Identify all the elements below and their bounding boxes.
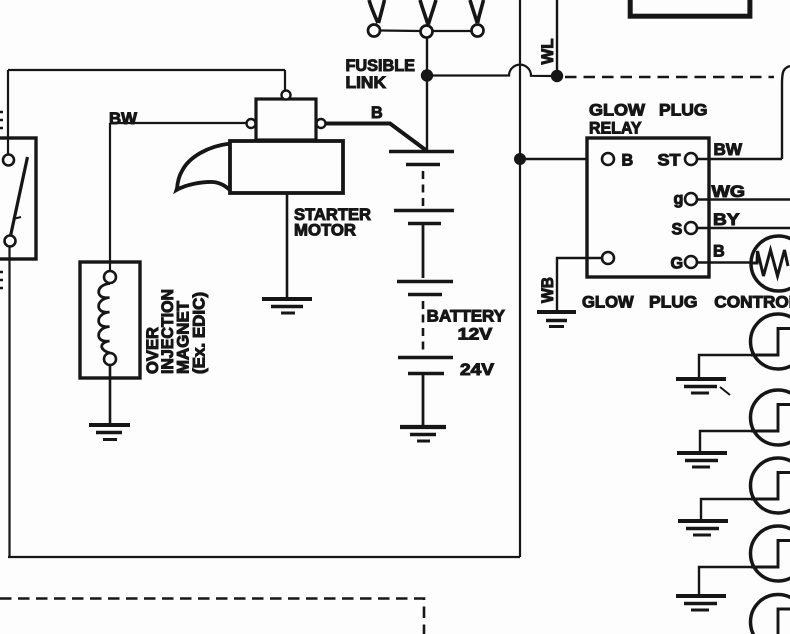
top right box (partial) xyxy=(630,0,750,16)
svg-text:CONTROL: CONTROL xyxy=(714,294,790,312)
ground G6 (GP2) xyxy=(677,451,727,455)
wire relay ST to BW right edge xyxy=(697,158,782,160)
wire main loop right: x=520 from y=0 to y=557 xyxy=(519,0,521,557)
svg-text:LINK: LINK xyxy=(346,74,387,92)
relay terminal S xyxy=(685,222,697,234)
glow plug GP1 step symbol xyxy=(751,329,790,356)
wire BW vertical right edge with curve to edge xyxy=(782,66,790,159)
over injection magnet terminal bottom xyxy=(104,353,116,365)
svg-text:S: S xyxy=(672,221,683,239)
wire starter motor to ground xyxy=(286,193,289,297)
svg-text:RELAY: RELAY xyxy=(589,120,642,138)
svg-text:(Ex. EDIC): (Ex. EDIC) xyxy=(191,292,209,374)
glow plug GP4 step symbol xyxy=(751,541,790,568)
ground G7 (GP3) xyxy=(678,519,728,523)
wire BW horizontal to solenoid xyxy=(110,122,247,124)
wire thick B from solenoid to battery xyxy=(326,124,427,152)
wire relay WB terminal to ground xyxy=(557,258,602,311)
wire GP1 to ground xyxy=(699,355,752,377)
glow plug controller resistor circle xyxy=(751,236,790,291)
wire GP3 to ground xyxy=(701,499,752,519)
fusible link F3 loop wires xyxy=(470,0,484,23)
wire GP2 to ground xyxy=(700,431,752,451)
glow plug GP5 circle (partial at bottom) xyxy=(751,595,790,634)
svg-text:FUSIBLE: FUSIBLE xyxy=(346,57,416,75)
wire fusible link down to battery xyxy=(426,38,428,152)
junction dot WL xyxy=(551,70,563,82)
battery plate 2 short xyxy=(408,222,441,226)
switch S1 blade tick xyxy=(13,217,21,219)
wire battery to ground xyxy=(422,375,425,425)
wire relay G to controller resistor xyxy=(697,261,752,263)
glow plug GP1 circle xyxy=(751,314,790,369)
wire solenoid top feed from main loop xyxy=(284,70,286,91)
battery dashed link 2 xyxy=(422,301,425,353)
switch S1 box (left edge, partially cut) xyxy=(0,138,36,259)
svg-text:MOTOR: MOTOR xyxy=(294,222,356,240)
starter solenoid terminal left xyxy=(247,119,256,128)
fusible link F1 circle left xyxy=(368,25,380,37)
relay terminal B xyxy=(602,153,614,165)
switch S1 contact top xyxy=(3,155,14,166)
fusible link F2 circle middle xyxy=(421,26,433,38)
dashed box bottom left xyxy=(0,599,424,634)
junction dot relay B feed xyxy=(514,153,526,165)
starter motor body xyxy=(230,141,343,193)
starter solenoid box xyxy=(256,99,316,140)
ground G3 (battery) xyxy=(400,425,446,429)
relay terminal ST xyxy=(685,153,697,165)
battery plate 4 short xyxy=(408,372,444,376)
svg-text:WG: WG xyxy=(712,183,746,201)
battery plate 1 short xyxy=(406,163,440,167)
svg-text:BW: BW xyxy=(109,110,138,128)
resistor zigzag inside controller xyxy=(751,250,788,276)
svg-text:ST: ST xyxy=(658,152,681,170)
ground G5 (GP1) xyxy=(676,377,726,381)
starter solenoid terminal top xyxy=(282,91,291,100)
battery plate 2 long xyxy=(394,209,454,213)
svg-text:WL: WL xyxy=(539,38,557,64)
svg-text:24V: 24V xyxy=(460,361,494,379)
relay terminal WB (unlabeled) xyxy=(602,252,614,264)
svg-text:WB: WB xyxy=(539,277,557,303)
starter motor nose cone xyxy=(177,144,231,191)
wire main loop top: y=70 from x=8 to x=285 xyxy=(8,69,285,71)
stray tick mark xyxy=(720,387,730,395)
svg-text:12V: 12V xyxy=(458,326,493,344)
relay terminal G xyxy=(685,256,697,268)
svg-text:BATTERY: BATTERY xyxy=(427,308,506,326)
wire main loop bottom: y=557 from x=8 to x=520 xyxy=(8,556,520,558)
over injection magnet box xyxy=(80,262,140,378)
svg-text:GLOW: GLOW xyxy=(589,101,646,119)
wire relay g to right edge WG xyxy=(697,198,790,200)
glow plug GP5 step symbol xyxy=(751,609,790,634)
wire battery cells 2-3 xyxy=(422,225,425,278)
over injection magnet terminal top xyxy=(104,271,116,283)
dashed wire top right xyxy=(565,76,774,79)
ground G8 (GP4) xyxy=(676,594,726,598)
ground G1 (over injection magnet) xyxy=(89,423,130,427)
glow plug GP2 circle xyxy=(751,390,790,445)
svg-text:PLUG: PLUG xyxy=(659,101,708,119)
glow plug GP2 step symbol xyxy=(751,405,790,432)
wire GP4 to ground xyxy=(699,567,752,594)
svg-text:B: B xyxy=(713,243,725,261)
ground G4 (relay WB) xyxy=(537,310,576,314)
wire between F2 and F3 xyxy=(433,30,472,32)
relay terminal g xyxy=(685,193,697,205)
wire main loop left: x=8 from y=70 to y=557 xyxy=(8,70,10,557)
battery dashed link 1 xyxy=(422,171,425,206)
ground G2 (starter motor) xyxy=(262,297,312,301)
wire fusible link junction to WL (hops over loop right wire) xyxy=(427,65,553,76)
battery BAT plate 1 long xyxy=(389,150,454,154)
svg-text:PLUG: PLUG xyxy=(649,294,698,312)
fusible link F1 loop wires xyxy=(369,0,385,23)
battery plate 3 long xyxy=(397,280,453,284)
wire relay S to right edge BY xyxy=(697,227,790,229)
svg-text:g: g xyxy=(674,190,684,208)
battery plate 4 long xyxy=(398,356,453,360)
wire BW vertical down to magnet coil xyxy=(109,123,111,272)
wire to relay terminal B xyxy=(520,158,602,160)
wire magnet to ground xyxy=(109,365,112,423)
battery plate 3 short xyxy=(408,293,442,297)
fusible link F2 loop wires xyxy=(420,0,436,25)
over injection magnet coil winding xyxy=(99,284,110,354)
glow plug GP3 circle xyxy=(751,458,790,513)
junction dot at fusible link xyxy=(421,69,433,81)
cut-off text marks left edge top xyxy=(0,112,3,128)
svg-text:BY: BY xyxy=(713,211,740,229)
switch S1 blade xyxy=(11,157,28,236)
svg-text:B: B xyxy=(622,152,634,170)
cut-off text marks left edge bottom xyxy=(0,272,3,288)
glow plug GP4 circle xyxy=(751,526,790,581)
svg-text:GLOW: GLOW xyxy=(582,294,634,312)
glow plug GP3 step symbol xyxy=(751,473,790,500)
starter solenoid terminal right xyxy=(317,119,326,128)
svg-text:B: B xyxy=(371,104,383,122)
wire WL vertical from top xyxy=(556,0,558,76)
svg-text:BW: BW xyxy=(714,141,743,159)
switch S1 contact bottom xyxy=(5,236,16,247)
wire between F1 and F2 xyxy=(381,29,420,32)
glow plug relay box U1 xyxy=(587,138,709,277)
fusible link F3 circle right xyxy=(472,25,484,37)
svg-text:G: G xyxy=(671,255,684,273)
